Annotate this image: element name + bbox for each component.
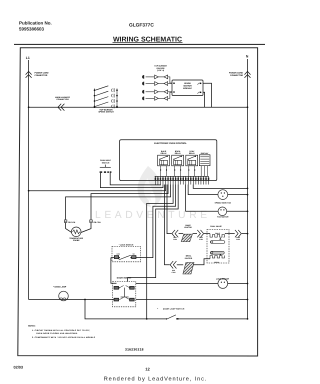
svg-text:CONNECTOR: CONNECTOR xyxy=(230,74,243,77)
svg-text:WIRING SCHEMATIC: WIRING SCHEMATIC xyxy=(113,36,182,43)
svg-text:316230218: 316230218 xyxy=(125,348,144,352)
svg-text:*: * xyxy=(157,308,158,311)
svg-text:1. CIRCUIT SHOWN WITH ALL CON: 1. CIRCUIT SHOWN WITH ALL CONTROLS SET T… xyxy=(32,329,91,332)
svg-text:12: 12 xyxy=(145,367,150,372)
svg-text:IGNITOR: IGNITOR xyxy=(185,257,193,260)
svg-text:CONNECTOR: CONNECTOR xyxy=(56,98,69,101)
svg-text:02/03: 02/03 xyxy=(14,366,24,370)
svg-text:RELAY: RELAY xyxy=(189,152,196,155)
svg-text:PB CON: PB CON xyxy=(94,221,102,224)
svg-text:(1 OF 4): (1 OF 4) xyxy=(157,69,164,72)
svg-text:IGNITOR: IGNITOR xyxy=(184,226,192,229)
svg-text:Publication No.: Publication No. xyxy=(19,21,52,26)
svg-text:GLGF377C: GLGF377C xyxy=(129,22,154,28)
svg-text:CONNECTOR: CONNECTOR xyxy=(35,74,48,77)
svg-text:5995386603: 5995386603 xyxy=(19,27,45,32)
svg-text:SPARK SWITCH: SPARK SWITCH xyxy=(98,111,114,114)
svg-text:DUAL VALVE: DUAL VALVE xyxy=(210,225,222,228)
svg-text:FAN MOTOR: FAN MOTOR xyxy=(217,216,229,219)
svg-text:Rendered by LeadVenture, Inc.: Rendered by LeadVenture, Inc. xyxy=(104,376,208,383)
svg-text:* OVEN LAMP: * OVEN LAMP xyxy=(53,286,67,289)
svg-text:DOOR SWITCH: DOOR SWITCH xyxy=(117,277,132,280)
svg-text:SPEED SENS FAN: SPEED SENS FAN xyxy=(215,201,232,204)
svg-text:DOOR LAMP SWITCH: DOOR LAMP SWITCH xyxy=(163,308,185,311)
svg-text:MODULE: MODULE xyxy=(183,87,192,90)
svg-text:SWITCH: SWITCH xyxy=(102,162,110,165)
svg-text:BROIL: BROIL xyxy=(214,261,219,264)
svg-text:PB CON: PB CON xyxy=(68,221,76,224)
svg-text:L1: L1 xyxy=(26,56,30,60)
svg-text:DISPLAY: DISPLAY xyxy=(201,152,209,155)
svg-text:RELAY: RELAY xyxy=(161,152,168,155)
svg-text:PROBE: PROBE xyxy=(73,239,80,242)
svg-text:NOTES:: NOTES: xyxy=(28,325,36,328)
svg-text:RELAY: RELAY xyxy=(175,152,182,155)
svg-text:ELECTRONIC OVEN CONTROL: ELECTRONIC OVEN CONTROL xyxy=(154,142,187,145)
svg-text:OVEN DOOR CLOSED AND UNLOCKED.: OVEN DOOR CLOSED AND UNLOCKED. xyxy=(36,332,78,335)
svg-text:* LOCK SWITCH: * LOCK SWITCH xyxy=(119,243,134,246)
svg-text:LOCK MOTOR: LOCK MOTOR xyxy=(216,278,230,281)
svg-text:2. COMPONENTS WITH * DO NOT: 2. COMPONENTS WITH * DO NOT APPEAR ON AL… xyxy=(32,336,96,339)
